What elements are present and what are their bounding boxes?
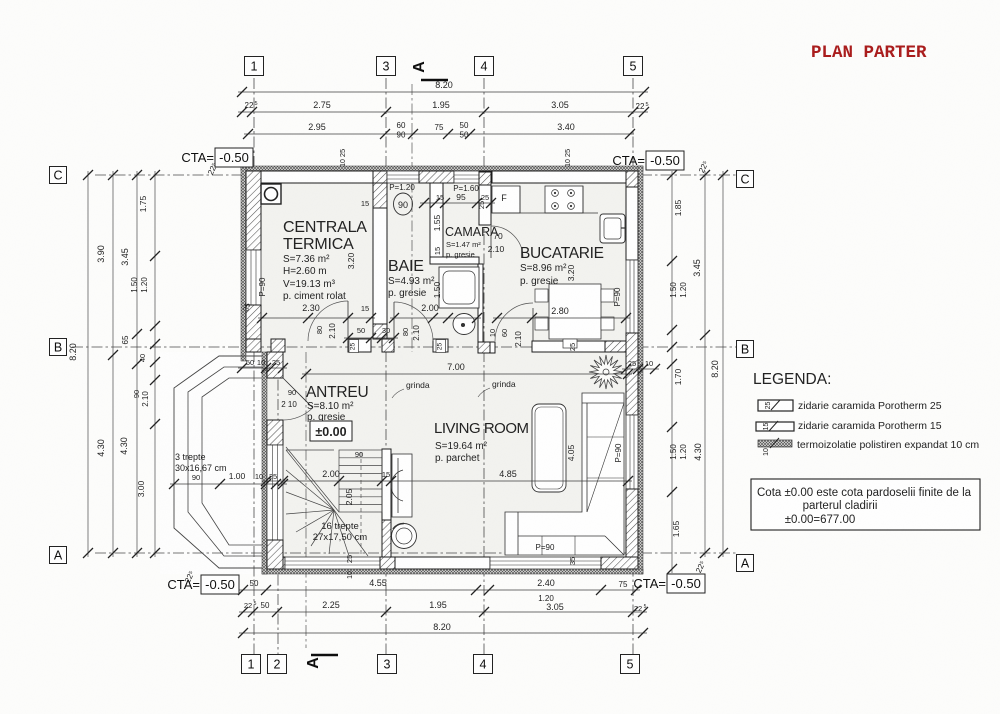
shower tray in BAIE	[439, 267, 479, 308]
stair right wall white part	[382, 449, 391, 520]
wall CT/BAIE hatched top	[373, 183, 387, 208]
right dimension chain 3.45/4.30	[704, 171, 706, 557]
B wall corner block left	[246, 339, 261, 352]
axis line 5 vertical	[632, 78, 634, 660]
left dimension 8.20 vertical	[87, 171, 89, 557]
living room corner sofa	[505, 393, 624, 555]
stair right wall hatched part	[382, 520, 391, 557]
grid bubble A left	[50, 547, 67, 564]
right dimension chain inner	[671, 171, 673, 573]
grid bubble 5 top	[624, 57, 643, 76]
bottom wall right corner hatched	[601, 557, 638, 569]
grid bubble 3 bottom	[378, 655, 397, 674]
CT interior dim line 2.30	[258, 317, 375, 319]
grid bubble C right	[737, 171, 754, 188]
kitchen stove with 4 burners	[545, 186, 583, 213]
right wall hatched pier at B	[626, 333, 638, 415]
axis line A horizontal	[95, 552, 738, 554]
left dimension chain 3.90/4.30	[112, 171, 114, 557]
wall CT/BAIE white middle	[373, 208, 387, 324]
grid bubble 4 bottom	[474, 655, 493, 674]
LIVING window in bottom wall	[490, 557, 601, 569]
grid bubble C left	[50, 167, 67, 184]
kitchen sink	[600, 214, 625, 243]
porch dims	[170, 483, 287, 485]
stair long diagonal	[286, 447, 339, 512]
kitchen counter edge	[492, 212, 598, 214]
B wall block 25 right of BAIE door	[433, 339, 448, 352]
right wall insulation	[638, 166, 643, 574]
stair walk line dashed	[360, 452, 362, 554]
kitchen chairs	[535, 289, 548, 302]
CT door arc in B wall	[308, 301, 348, 341]
level mark +-0.00 box	[310, 421, 352, 441]
section marker A top	[411, 61, 448, 80]
CAMARA window in top wall	[454, 171, 479, 183]
bottom dimension row 2	[239, 611, 647, 613]
ANTREU left wall insulation	[262, 352, 267, 574]
interior dim line at stair/living	[262, 480, 632, 482]
porch exterior steps outline 3	[202, 378, 262, 545]
legend item termoizolatie	[758, 438, 792, 456]
axis line C horizontal	[95, 174, 738, 176]
left dimension chain 3.45/65/4.30	[136, 171, 138, 557]
B wall block 25 right of CT door	[348, 339, 371, 352]
bottom wall left corner hatched	[266, 557, 285, 569]
grid bubble B left	[50, 339, 67, 356]
25 label boxed in B wall right	[436, 340, 446, 353]
kitchen table	[549, 284, 601, 339]
left small dims 50 10 25 at B	[238, 367, 287, 369]
top wall brick: left corner hatched	[246, 171, 261, 183]
top wall pier right of CAMARA window	[479, 171, 492, 183]
B wall block 2	[271, 339, 285, 352]
25 label boxed in B wall	[349, 340, 359, 353]
CT window in left wall P=90	[246, 250, 261, 305]
living room window in right wall P=90	[626, 415, 638, 489]
top wall brick white over CENTRALA TERMICA	[261, 171, 373, 183]
axis line 4 vertical	[483, 78, 485, 660]
wardrobe furniture right of stair	[391, 454, 412, 517]
stair straight flight treads	[339, 450, 382, 512]
grid bubble 5 bottom	[621, 655, 640, 674]
CAMARA left wall	[430, 183, 443, 257]
wall CT/BAIE hatched bottom	[373, 324, 387, 339]
building interior background wash	[246, 171, 643, 569]
B wall block 30	[382, 339, 394, 352]
kitchen/living wall band	[532, 341, 626, 352]
ANTREU window in bottom wall	[285, 557, 380, 569]
axis line 1 vertical	[253, 78, 255, 660]
BAIE interior dim line 2.00	[390, 317, 481, 319]
plant in living room corner	[589, 355, 623, 389]
CAMARA bottom wall	[430, 257, 479, 264]
axis line 3 vertical	[385, 78, 387, 660]
grid bubble 2 bottom	[268, 655, 287, 674]
CAMARA right wall hatched top	[479, 172, 491, 185]
BAIE window in top wall	[387, 171, 419, 183]
right wall top corner block	[626, 171, 638, 187]
grid bubble 1 bottom	[242, 655, 261, 674]
left wall insulation	[241, 166, 246, 361]
axis line B horizontal	[72, 346, 738, 348]
bottom wall white segment 2	[395, 557, 490, 569]
axis line 2 vertical	[277, 360, 279, 660]
section line A-A bottom	[305, 352, 307, 648]
legend item Porotherm 15	[756, 421, 794, 431]
ANTREU left wall hatched below entrance door	[267, 420, 283, 445]
top dimension row 3	[244, 133, 634, 135]
left wall brick lower pier hatched	[246, 305, 261, 342]
section marker A bottom	[305, 655, 338, 669]
ANTREU window in left wall	[267, 445, 283, 540]
bottom wall insulation	[262, 569, 643, 574]
bottom dimension row 1	[239, 589, 640, 591]
kitchen fridge F	[492, 186, 520, 213]
right wall white segment below corner	[626, 187, 638, 260]
note box cota	[751, 479, 980, 530]
CAMARA right wall white	[479, 185, 491, 225]
B wall hatched block left of kitchen passage	[478, 342, 490, 353]
right wall hatched pier to A corner	[626, 489, 638, 569]
porch exterior steps outline 2	[188, 367, 262, 556]
right dimension 8.20 vertical	[722, 171, 724, 557]
grid bubble 1 top	[245, 57, 264, 76]
stair winder fan	[286, 450, 368, 556]
legend item Porotherm 25	[758, 400, 793, 411]
right small dims 25 10 top	[622, 368, 659, 370]
washbasin in BAIE	[453, 314, 475, 335]
top wall pier between BAIE and CAMARA windows	[419, 171, 454, 183]
grid bubble B right	[737, 341, 754, 358]
entrance door arc in ANTREU	[283, 408, 313, 420]
bottom wall hatched pier	[380, 557, 395, 569]
top dimension row 2	[238, 111, 648, 113]
round chair in ANTREU	[392, 523, 417, 548]
kitchen window in right wall P=90	[626, 260, 638, 333]
kitchen/living wall hatched right end	[605, 341, 626, 352]
living room rug / table	[532, 404, 566, 492]
ANTREU left wall hatched to corner	[267, 540, 283, 569]
BAIE door arc in B wall	[394, 302, 433, 341]
CAMARA to kitchen door arc	[491, 226, 523, 258]
top wall insulation	[241, 166, 643, 171]
porch exterior steps outline 1	[174, 356, 262, 568]
shower niche right wall	[478, 264, 483, 342]
ANTREU left wall stub below B	[267, 352, 283, 378]
left wall brick upper hatched	[246, 171, 261, 250]
grid bubble A right	[737, 555, 754, 572]
top wall right corner hatched	[626, 171, 638, 183]
top wall brick white over BUCATARIE	[492, 171, 626, 183]
top wall pier at CT/BAIE wall	[373, 171, 387, 183]
section line A-A top	[411, 84, 413, 352]
kitchen passage door arc	[495, 303, 533, 341]
interior dim 7.00	[302, 373, 632, 375]
grid bubble 3 top	[377, 57, 396, 76]
top dimension 8.20	[238, 91, 648, 93]
kitchen interior dim line 2.80	[493, 317, 630, 319]
left dimension chain inner	[154, 171, 156, 557]
bottom dimension 8.20	[239, 632, 647, 634]
boiler in CENTRALA TERMICA	[261, 184, 281, 204]
grid bubble 4 top	[475, 57, 494, 76]
